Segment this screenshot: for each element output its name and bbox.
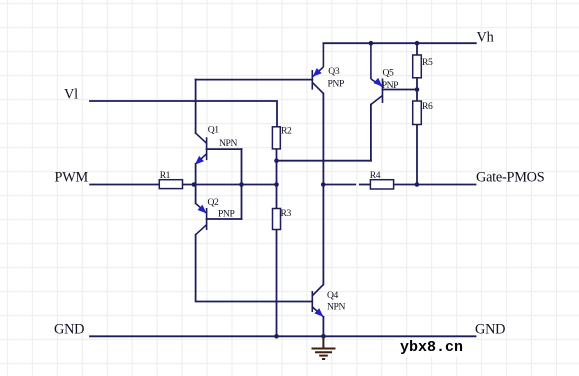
wire R6 bottom drop: [416, 125, 418, 185]
svg-text:NPN: NPN: [219, 138, 237, 149]
watermark ybx8.cn: [395, 338, 474, 358]
svg-text:R3: R3: [281, 208, 292, 219]
arrow Q5 emitter: [373, 78, 382, 87]
wire Q4 collector rise: [322, 185, 324, 285]
junction rail R6: [415, 182, 420, 187]
resistor R3: [273, 209, 281, 230]
svg-text:R5: R5: [422, 57, 433, 68]
wire rail Q3 collector node to R4: [323, 184, 355, 186]
wire GND rail: [90, 335, 476, 337]
wire Q5 base to R5/R6: [383, 89, 418, 91]
wire Q1/Q2 base column: [241, 149, 243, 219]
svg-text:R2: R2: [281, 125, 292, 136]
wire Vh top rail: [323, 42, 475, 44]
svg-text:Q5: Q5: [383, 68, 395, 79]
junction top rail R5: [415, 41, 420, 46]
wire main rail R1 to R2/R3 node: [183, 184, 277, 186]
junction rail base column: [239, 182, 244, 187]
svg-text:Q2: Q2: [208, 197, 220, 208]
resistor R6: [413, 101, 422, 125]
junction rail Q1 emitter: [192, 182, 197, 187]
transistor Q3 body: [311, 70, 313, 90]
wire PWM to R1: [90, 184, 159, 186]
junction rail Q3/Q4 collector: [321, 182, 326, 187]
wire Vl rail: [90, 101, 277, 127]
arrow Q4 emitter: [314, 308, 323, 317]
svg-text:Q3: Q3: [328, 66, 340, 77]
wire R2-R3 column: [276, 149, 278, 209]
arrow Q3 emitter: [313, 68, 322, 77]
junction R2 bottom: [274, 158, 279, 163]
wire R3 to GND: [276, 230, 278, 337]
transistor Q3 emitter stub: [322, 43, 324, 67]
wire R2 bottom to Q5 collector: [277, 160, 371, 162]
svg-text:GND: GND: [54, 322, 84, 338]
arrow Q1 emitter: [195, 156, 204, 165]
svg-text:Vl: Vl: [64, 86, 78, 102]
wire Q2 emitter rise: [195, 185, 197, 204]
resistor R5: [413, 55, 422, 78]
transistor Q4 body: [311, 291, 313, 312]
svg-text:GND: GND: [475, 322, 505, 338]
svg-text:R6: R6: [422, 101, 433, 112]
svg-text:ybx8.cn: ybx8.cn: [400, 339, 463, 356]
wire R4 to Gate-PMOS: [394, 184, 476, 186]
wire Q4 emitter drop: [322, 317, 324, 337]
resistor R1: [159, 180, 182, 189]
wire Q2 collector to Q4 base: [196, 235, 313, 302]
svg-text:Q4: Q4: [327, 290, 339, 301]
svg-text:Gate-PMOS: Gate-PMOS: [476, 170, 545, 186]
wire rail stub at R4 left: [360, 184, 371, 186]
wire Q3 collector drop: [322, 94, 324, 185]
wire Q2 base: [207, 218, 242, 220]
svg-text:PNP: PNP: [382, 80, 398, 91]
svg-text:PNP: PNP: [218, 208, 234, 219]
wire Q1 collector drop: [195, 80, 197, 134]
junction GND R3: [274, 334, 279, 339]
resistor R4: [370, 180, 393, 189]
wire Q1 emitter drop: [195, 164, 197, 185]
arrow Q2 emitter: [198, 205, 207, 214]
svg-text:PNP: PNP: [328, 78, 344, 89]
wire Q3 base link: [196, 79, 313, 81]
junction top rail Q5: [369, 41, 374, 46]
wire Q5 collector drop: [370, 105, 372, 161]
wire R5 top stub: [416, 43, 418, 55]
junction rail R2/R3 column: [274, 182, 279, 187]
svg-text:PWM: PWM: [55, 169, 89, 185]
transistor Q1 body: [206, 137, 208, 160]
resistor R2: [272, 127, 280, 149]
svg-text:Q1: Q1: [208, 125, 220, 136]
svg-text:NPN: NPN: [327, 302, 345, 313]
transistor Q2 body: [206, 208, 208, 230]
transistor Q5 emitter stub: [370, 43, 372, 79]
svg-text:R1: R1: [160, 170, 171, 181]
svg-text:Vh: Vh: [477, 30, 494, 46]
svg-text:R4: R4: [370, 170, 381, 181]
junction GND Q4: [321, 334, 326, 339]
wire Q1 base: [207, 148, 242, 150]
wire R5-R6 mid: [416, 78, 418, 101]
ground symbol: [312, 337, 336, 359]
transistor Q5 body: [382, 79, 384, 104]
junction Q5 base R5/R6: [415, 87, 420, 92]
